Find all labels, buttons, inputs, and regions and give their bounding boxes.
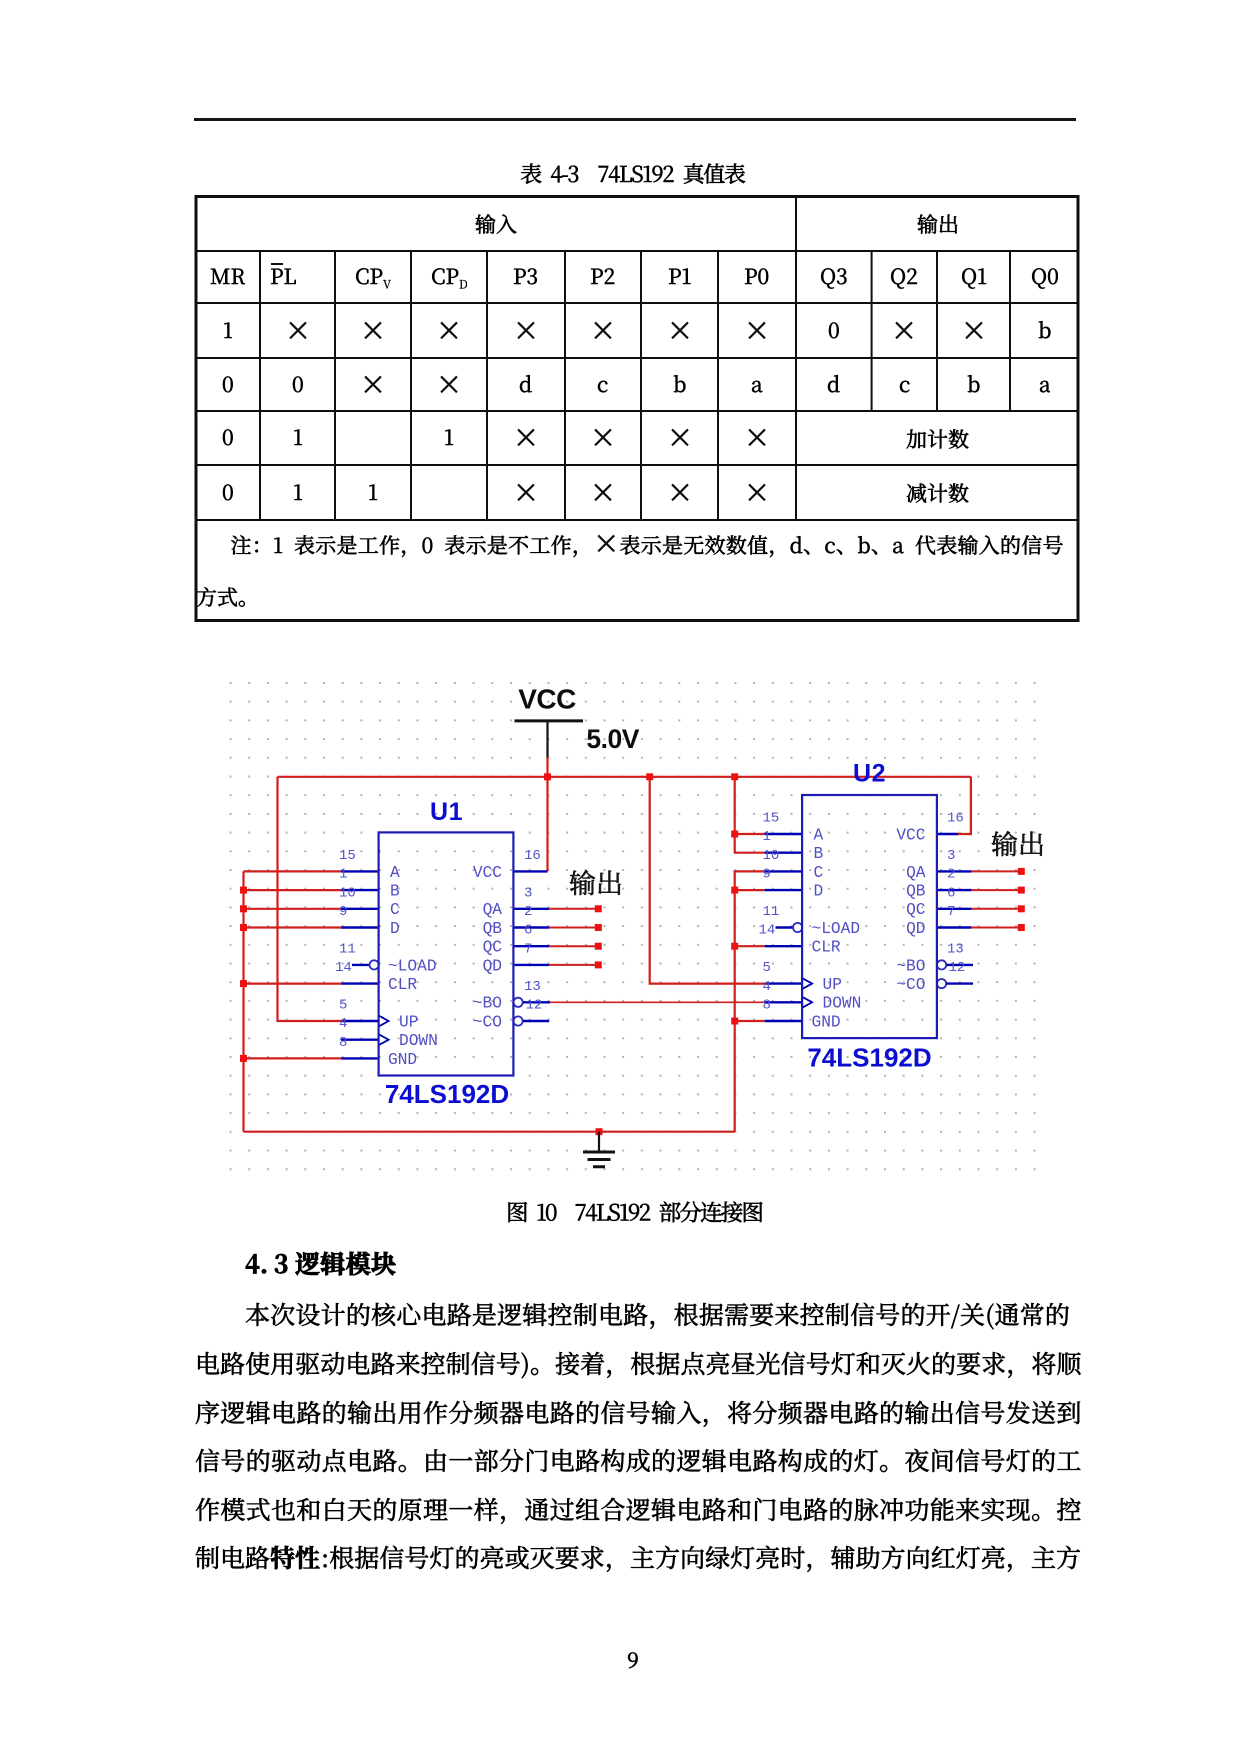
U2 ~LOAD pin stub with inversion bubble [776, 923, 803, 932]
node U2 QD output terminal [1018, 924, 1025, 931]
svg-text:1: 1 [763, 829, 771, 845]
svg-text:74LS192D: 74LS192D [807, 1042, 931, 1072]
U1 ~CO pin stub with inversion bubble [514, 1016, 550, 1025]
svg-text:~LOAD: ~LOAD [388, 957, 437, 975]
svg-text:D: D [390, 920, 400, 938]
U2 VCC pin stub [937, 833, 958, 835]
wire bus-left down to U1 UP pin [278, 777, 342, 1021]
wire U2 output QC [971, 908, 1021, 910]
junction ground bus / ground symbol [596, 1128, 603, 1135]
node U2 QC output terminal [1018, 905, 1025, 912]
svg-text:3: 3 [947, 848, 955, 864]
junction U1 left bus / pin C [240, 905, 247, 912]
svg-text:3: 3 [524, 885, 532, 901]
svg-text:VCC: VCC [473, 864, 502, 882]
svg-text:2: 2 [947, 867, 955, 883]
wire U1 output QC [549, 945, 598, 947]
svg-text:DOWN: DOWN [399, 1032, 438, 1050]
wire U2 pin A stub to bus drop [735, 833, 765, 835]
svg-text:5.0V: 5.0V [586, 724, 639, 754]
svg-text:12: 12 [526, 998, 543, 1014]
svg-text:GND: GND [812, 1013, 841, 1031]
svg-text:7: 7 [524, 941, 532, 957]
svg-text:16: 16 [524, 848, 541, 864]
node U1 QD output terminal [595, 961, 602, 968]
svg-text:U1: U1 [430, 798, 463, 826]
svg-text:QC: QC [483, 939, 503, 957]
node U1 QA output terminal [595, 905, 602, 912]
wire VCC top bus [278, 776, 971, 778]
svg-text:8: 8 [763, 998, 771, 1014]
U1 VCC pin stub [513, 870, 547, 872]
wire U2 pin C to ground bus vertical [735, 871, 765, 1131]
wire bus to U2 pins A,B [735, 777, 765, 853]
svg-text:16: 16 [947, 811, 964, 827]
svg-text:74LS192D: 74LS192D [385, 1079, 509, 1109]
IC U1 74LS192D counter body [379, 832, 514, 1075]
svg-text:C: C [390, 901, 400, 919]
U1 DOWN clock pin stub [341, 1034, 388, 1045]
svg-text:C: C [814, 864, 824, 882]
wire U2 output QB [971, 889, 1021, 891]
node U2 QB output terminal [1018, 887, 1025, 894]
U1 ~BO pin stub with inversion bubble [514, 998, 551, 1007]
svg-text:~CO: ~CO [896, 976, 925, 994]
U2 pin stubs left [765, 834, 802, 1021]
svg-text:VCC: VCC [896, 826, 925, 844]
svg-text:14: 14 [759, 923, 776, 939]
svg-text:5: 5 [339, 998, 347, 1014]
junction U1 left bus / pin GND [240, 1055, 247, 1062]
wire U1 pin B [244, 889, 342, 891]
svg-text:15: 15 [763, 811, 780, 827]
wire U1 output QB [549, 927, 598, 929]
svg-text:11: 11 [763, 904, 780, 920]
wire U2 pin GND [735, 1020, 765, 1022]
svg-text:13: 13 [947, 941, 964, 957]
junction U2 drop / pin A [731, 831, 738, 838]
wire U1 pin C [244, 908, 342, 910]
wire bus to U2 UP pin [650, 777, 765, 984]
junction U1 left bus / pin D [240, 924, 247, 931]
svg-text:~CO: ~CO [473, 1013, 502, 1031]
svg-text:QD: QD [906, 920, 925, 938]
junction U2 drop / pin GND [731, 1018, 738, 1025]
svg-text:4: 4 [339, 1016, 347, 1032]
svg-text:U2: U2 [853, 760, 886, 788]
svg-text:B: B [814, 845, 824, 863]
U1 output pin stubs right [513, 909, 549, 965]
svg-text:QA: QA [483, 901, 503, 919]
wire U2 pin CLR [735, 945, 765, 947]
U1 ~LOAD pin stub with inversion bubble [352, 960, 379, 969]
svg-text:4: 4 [763, 979, 771, 995]
svg-text:10: 10 [763, 848, 780, 864]
junction VCC bus / U2 A-B drop [731, 773, 738, 780]
wire U1 pin A [244, 870, 342, 872]
svg-text:5: 5 [763, 960, 771, 976]
svg-text:QB: QB [906, 883, 926, 901]
svg-text:10: 10 [339, 885, 356, 901]
svg-text:7: 7 [947, 904, 955, 920]
svg-text:12: 12 [949, 960, 966, 976]
wire U2 pin D [735, 889, 765, 891]
svg-text:DOWN: DOWN [823, 995, 862, 1013]
U1 pin stubs left [341, 871, 378, 1058]
wire U1 output QA [549, 908, 598, 910]
wire bottom ground bus [244, 1131, 735, 1133]
wire U1 pin D [244, 926, 342, 928]
junction U1 left bus / pin B [240, 887, 247, 894]
U2 UP clock pin stub [765, 978, 812, 989]
svg-text:QB: QB [483, 920, 503, 938]
svg-text:13: 13 [524, 979, 541, 995]
wire U1 pin CLR [244, 982, 342, 984]
ground symbol [583, 1132, 615, 1167]
wire U1 ground bus vertical [242, 871, 244, 1131]
svg-text:~LOAD: ~LOAD [812, 920, 861, 938]
wire U1 ~BO to U2 DOWN [550, 1001, 765, 1003]
svg-text:~BO: ~BO [473, 995, 502, 1013]
svg-text:QC: QC [906, 901, 926, 919]
node label 输出 at U2 outputs [991, 827, 1045, 863]
wire bus to U2 VCC pin [958, 777, 971, 834]
junction U1 left bus / pin CLR [240, 980, 247, 987]
wire U2 output QA [971, 870, 1021, 872]
node label 输出 at U1 outputs [569, 866, 623, 902]
U2 DOWN clock pin stub [765, 997, 812, 1008]
power symbol VCC [515, 684, 584, 759]
svg-text:CLR: CLR [812, 939, 841, 957]
svg-text:9: 9 [339, 904, 347, 920]
node U2 QA output terminal [1018, 868, 1025, 875]
svg-text:6: 6 [524, 923, 532, 939]
junction VCC bus / VCC lead [544, 773, 551, 780]
wire U1 output QD [549, 964, 598, 966]
node U1 QB output terminal [595, 924, 602, 931]
svg-text:B: B [390, 883, 400, 901]
U2 output pin stubs right [937, 871, 972, 927]
junction U2 drop / pin D [731, 887, 738, 894]
svg-text:VCC: VCC [518, 684, 576, 715]
U2 ~CO pin stub with inversion bubble [937, 979, 973, 988]
wire VCC lead down to bus [546, 757, 548, 871]
svg-text:15: 15 [339, 848, 356, 864]
svg-text:2: 2 [524, 904, 532, 920]
svg-text:CLR: CLR [388, 976, 417, 994]
svg-text:QA: QA [906, 864, 926, 882]
wire U1 pin GND [244, 1057, 342, 1059]
U2 ~BO pin stub with inversion bubble [937, 960, 973, 969]
svg-text:A: A [390, 864, 400, 882]
svg-text:1: 1 [339, 867, 347, 883]
node U1 QC output terminal [595, 943, 602, 950]
junction U2 drop / pin CLR [731, 943, 738, 950]
IC U2 74LS192D counter body [802, 795, 937, 1038]
svg-text:A: A [814, 826, 824, 844]
svg-text:UP: UP [399, 1013, 418, 1031]
svg-text:D: D [814, 883, 824, 901]
junction VCC bus / U2 UP drop [646, 773, 653, 780]
wire U2 output QD [971, 927, 1021, 929]
U1 UP clock pin stub [341, 1016, 388, 1027]
svg-text:GND: GND [388, 1051, 417, 1069]
svg-text:UP: UP [823, 976, 842, 994]
svg-text:9: 9 [763, 867, 771, 883]
svg-text:8: 8 [339, 1035, 347, 1051]
svg-text:11: 11 [339, 941, 356, 957]
svg-text:~BO: ~BO [896, 957, 925, 975]
svg-text:14: 14 [335, 960, 352, 976]
svg-text:6: 6 [947, 885, 955, 901]
svg-text:QD: QD [483, 957, 502, 975]
